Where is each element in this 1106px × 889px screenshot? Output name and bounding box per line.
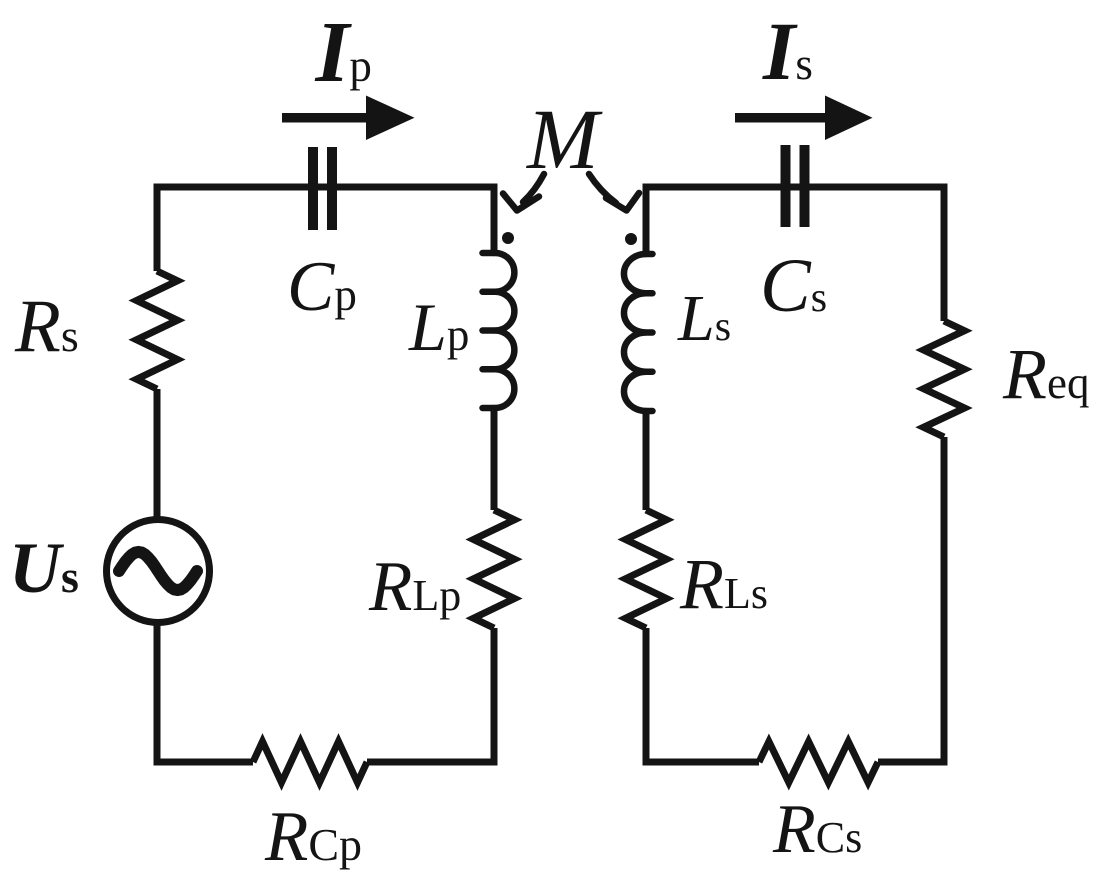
svg-text:M: M	[525, 91, 603, 187]
